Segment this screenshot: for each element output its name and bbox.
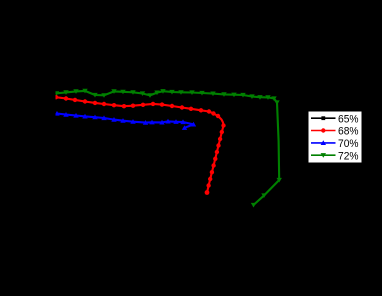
series 70% blue line [57,114,194,128]
svg-text:72%: 72% [338,150,359,162]
legend box [308,111,362,163]
legend entry 72% green line [311,154,336,156]
series 70% blue triangle-up markers [54,111,196,130]
series 72% green line [57,91,280,205]
svg-text:68%: 68% [338,126,359,138]
series 72% green triangle-down markers [54,89,282,208]
svg-text:65%: 65% [338,113,359,125]
series 68% red circle markers [54,95,226,195]
legend entry 68% red line [311,130,336,132]
legend entry 65% black line [311,117,336,119]
legend entry 70% blue line [311,142,336,144]
series 68% red line [56,97,224,192]
legend entry 70% blue triangle-up marker [321,140,326,145]
legend entry 65% black square marker [321,116,325,120]
svg-text:70%: 70% [338,138,359,150]
legend entry 72% green triangle-down marker [321,153,326,158]
legend entry 68% red circle marker [321,128,325,132]
